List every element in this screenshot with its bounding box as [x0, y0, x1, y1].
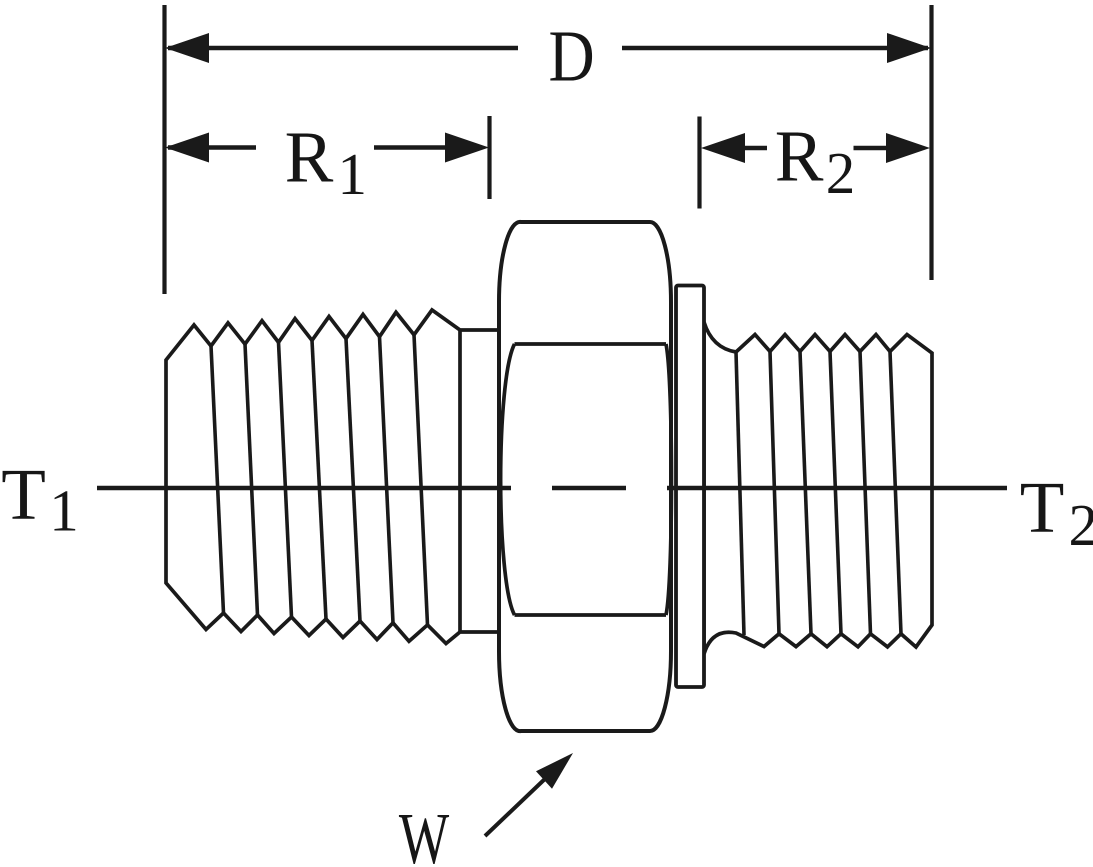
- R1 left arrowhead: [165, 133, 209, 163]
- svg-text:W: W: [399, 798, 450, 867]
- left male NPT thread outline: [166, 310, 502, 644]
- left thread flank stems: [211, 335, 428, 625]
- right thread flank stems: [736, 352, 901, 636]
- left witness line: [162, 5, 166, 294]
- left thread shoulder line: [458, 330, 462, 632]
- hex center facet right arc: [666, 344, 671, 615]
- R1 tick: [487, 116, 491, 199]
- hex face line top: [515, 342, 667, 346]
- right straight thread outline: [704, 322, 932, 654]
- D left arrowhead: [165, 33, 209, 63]
- hex face line bottom: [515, 613, 667, 617]
- svg-text:T: T: [1020, 467, 1065, 548]
- svg-text:D: D: [549, 15, 595, 96]
- svg-text:1: 1: [338, 141, 368, 207]
- svg-text:T: T: [1, 454, 46, 535]
- collar / washer face: [676, 286, 704, 688]
- centerline T1-T2: [97, 486, 1007, 491]
- R1 right arrowhead: [445, 133, 489, 163]
- svg-text:2: 2: [826, 140, 856, 206]
- W leader arrow: [485, 776, 548, 836]
- right witness line: [929, 5, 933, 280]
- svg-text:R: R: [285, 117, 334, 198]
- R2 right arrowhead: [886, 133, 930, 163]
- svg-text:2: 2: [1069, 492, 1093, 558]
- hex center facet left arc: [501, 344, 515, 615]
- D dimension line: [168, 46, 928, 51]
- R2 dimension line: [744, 146, 888, 151]
- svg-text:1: 1: [49, 478, 78, 544]
- R2 tick: [697, 117, 701, 209]
- hex nut body: [499, 222, 671, 731]
- D right arrowhead: [887, 33, 931, 63]
- svg-text:R: R: [775, 116, 824, 197]
- R1 dimension line: [168, 145, 447, 150]
- R2 left arrowhead: [701, 133, 745, 163]
